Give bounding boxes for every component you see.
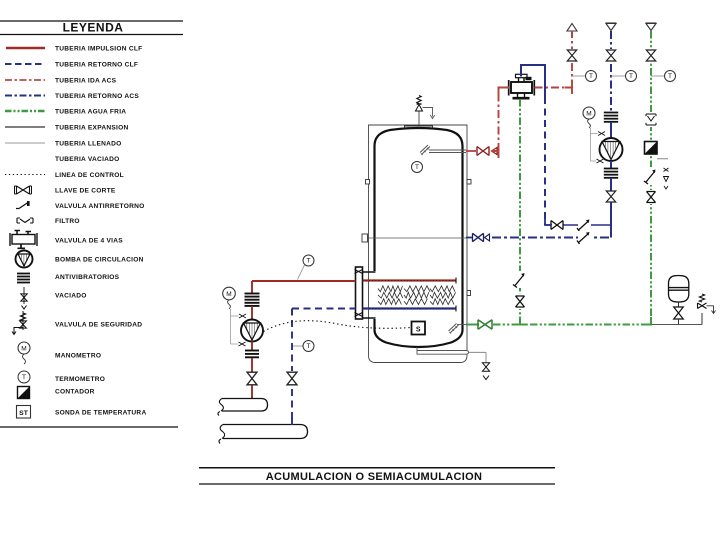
legend symbol termometro xyxy=(18,371,30,383)
flow arrow down (agua fria entrada) xyxy=(646,22,657,24)
heat exchanger flange bolts xyxy=(355,270,363,317)
svg-text:T: T xyxy=(629,73,633,80)
pipe retorno CLF loop over 4-way valve (navy) xyxy=(521,65,545,97)
svg-text:TUBERIA IMPULSION CLF: TUBERIA IMPULSION CLF xyxy=(55,45,142,52)
legend symbol llave de corte xyxy=(17,186,30,194)
svg-text:TUBERIA IDA ACS: TUBERIA IDA ACS xyxy=(55,77,117,84)
pump impulsion CLF xyxy=(241,320,263,342)
legend symbol contador xyxy=(18,387,30,399)
valve on ACS riser xyxy=(566,49,578,62)
boiler manifold lower xyxy=(223,425,308,439)
water counter xyxy=(645,142,658,155)
pipe retorno CLF vertical (navy dashed) xyxy=(291,309,293,426)
svg-text:M: M xyxy=(226,291,231,298)
svg-text:LINEA DE CONTROL: LINEA DE CONTROL xyxy=(55,172,124,179)
thermometer T impulsion xyxy=(298,265,305,280)
tank drain pipe xyxy=(416,347,418,351)
safety valve on expansion line xyxy=(701,313,703,325)
svg-text:TUBERIA RETORNO ACS: TUBERIA RETORNO ACS xyxy=(55,93,139,100)
legend symbol manometro xyxy=(18,342,30,354)
heat exchanger flange plate xyxy=(356,267,363,319)
pipe impulsion CLF vertical (red) xyxy=(251,281,253,293)
svg-text:T: T xyxy=(589,73,593,80)
tank side lugs xyxy=(366,180,370,185)
cut valve tank cold inlet xyxy=(478,320,492,330)
check valve retorno upper xyxy=(578,218,591,231)
tank wall notch for exchanger xyxy=(372,271,378,319)
pipe corner elbows (solid) xyxy=(644,317,651,325)
expansion vessel xyxy=(669,276,689,303)
valve below pump ACS xyxy=(606,191,615,202)
svg-text:ST: ST xyxy=(19,410,29,417)
cut valve retorno upper xyxy=(551,220,563,230)
svg-text:T: T xyxy=(668,73,672,80)
pipe agua fria to tank bottom (green) xyxy=(493,324,651,326)
boiler manifold upper xyxy=(222,399,268,412)
counter test tap xyxy=(657,158,668,160)
legend line tuberia ida ACS xyxy=(5,79,45,81)
svg-text:VALVULA ANTIRRETORNO: VALVULA ANTIRRETORNO xyxy=(55,203,145,210)
valve on retorno CLF xyxy=(286,371,298,386)
pipe retorno ACS riser (navy dash-dot) xyxy=(610,31,612,112)
svg-text:S: S xyxy=(416,326,421,333)
sonda S box in tank xyxy=(412,322,426,335)
pipe agua fria vertical (green) xyxy=(650,31,652,325)
thermometer T agua fria xyxy=(651,75,665,77)
heat exchanger hot tube (red) xyxy=(363,279,457,281)
pipe ida ACS riser to 4-way valve (red dash-dot) xyxy=(499,88,510,152)
svg-text:CONTADOR: CONTADOR xyxy=(55,388,95,395)
pipe ida ACS 4-way valve to riser (red dash-dot) xyxy=(535,87,573,89)
4-way valve body xyxy=(511,82,532,93)
filter on agua fria xyxy=(644,112,658,127)
tank outer insulation jacket xyxy=(369,125,468,363)
check valve on agua fria drop xyxy=(514,271,526,288)
cut valve agua fria xyxy=(645,190,657,204)
legend symbol bomba de circulacion xyxy=(16,251,33,268)
pump retorno ACS xyxy=(600,138,623,161)
heat exchanger coil xyxy=(378,286,403,292)
4-way valve top port xyxy=(519,78,525,83)
tank vessel xyxy=(375,128,463,347)
svg-text:ANTIVIBRATORIOS: ANTIVIBRATORIOS xyxy=(55,274,120,281)
svg-text:ACUMULACION O SEMIACUMULACION: ACUMULACION O SEMIACUMULACION xyxy=(266,471,482,483)
svg-text:LEYENDA: LEYENDA xyxy=(63,21,124,35)
antivibrator upper pump ACS xyxy=(604,112,618,114)
svg-text:VALVULA DE SEGURIDAD: VALVULA DE SEGURIDAD xyxy=(55,321,142,328)
legend line tuberia llenado xyxy=(5,142,45,144)
valve on agua fria entry xyxy=(645,49,657,62)
svg-text:MANOMETRO: MANOMETRO xyxy=(55,352,101,359)
legend bottom border xyxy=(0,426,178,428)
svg-text:SONDA DE TEMPERATURA: SONDA DE TEMPERATURA xyxy=(55,409,146,416)
svg-text:LLAVE DE CORTE: LLAVE DE CORTE xyxy=(55,187,116,194)
pipe impulsion CLF horizontal (red) xyxy=(252,280,356,282)
svg-text:M: M xyxy=(21,346,26,353)
svg-text:TUBERIA AGUA FRIA: TUBERIA AGUA FRIA xyxy=(55,108,126,115)
legend symbol antivibratorios xyxy=(17,273,30,275)
valve on retorno ACS riser xyxy=(605,49,617,62)
legend symbol valvula de seguridad xyxy=(22,311,24,330)
tank drain valve xyxy=(482,363,489,371)
svg-text:T: T xyxy=(307,343,311,350)
valve on tank middle connection xyxy=(466,237,472,239)
svg-text:M: M xyxy=(586,111,591,118)
control dotted line sonda to pump xyxy=(264,321,412,332)
pipe retorno CLF horizontal (navy dashed) xyxy=(292,308,356,310)
thermometer T retorno ACS xyxy=(611,75,626,77)
4-way valve bottom port xyxy=(518,93,525,97)
title block xyxy=(199,467,555,469)
thermometer T retorno xyxy=(292,345,303,347)
tank dip tube at middle connection xyxy=(366,237,466,239)
thermometer T riser ACS xyxy=(572,75,586,77)
pipe retorno CLF horizontal upper (navy) xyxy=(545,224,611,226)
flow arrow up (salida ACS) xyxy=(567,24,577,32)
pipe expansion (gray) xyxy=(651,324,702,326)
svg-text:TUBERIA EXPANSION: TUBERIA EXPANSION xyxy=(55,124,129,131)
svg-text:TERMOMETRO: TERMOMETRO xyxy=(55,376,105,383)
legend line tuberia impulsion CLF xyxy=(6,47,45,50)
tank safety valve assembly xyxy=(418,111,420,125)
tank top nozzle (ACS outlet) xyxy=(420,145,430,155)
heat exchanger mounting box xyxy=(363,272,376,318)
svg-text:T: T xyxy=(22,374,26,381)
svg-text:TUBERIA RETORNO CLF: TUBERIA RETORNO CLF xyxy=(55,61,138,68)
manometer pump ACS xyxy=(583,107,595,119)
check valve agua fria xyxy=(644,167,658,185)
tank thermometer T xyxy=(412,162,423,173)
legend symbol vaciado xyxy=(23,287,25,304)
legend line tuberia retorno ACS xyxy=(5,95,45,97)
svg-text:VACIADO: VACIADO xyxy=(55,292,87,299)
flow arrow down (retorno ACS) xyxy=(606,22,617,24)
antivibrator lower pump ACS xyxy=(610,161,612,168)
antivibrator upper pump CLF xyxy=(245,293,260,295)
heat exchanger cold tube (blue) xyxy=(363,307,457,309)
tank bottom nozzle (cold water inlet) xyxy=(449,324,459,334)
svg-text:TUBERIA VACIADO: TUBERIA VACIADO xyxy=(55,156,120,163)
pipe retorno ACS horizontal lower (navy dash-dot) xyxy=(492,237,611,239)
check valve retorno lower xyxy=(578,231,591,244)
legend symbol valvula de 4 vias xyxy=(12,235,35,245)
legend line tuberia expansion xyxy=(5,126,45,128)
svg-text:FILTRO: FILTRO xyxy=(55,218,80,225)
valve below pump CLF xyxy=(247,372,257,385)
pipe ida ACS tank to corner (red) xyxy=(466,150,476,152)
expansion vessel valve xyxy=(678,302,680,307)
legend symbol valvula antirretorno xyxy=(16,203,28,209)
4-way valve actuator knob xyxy=(526,77,532,80)
svg-text:T: T xyxy=(307,258,311,265)
antivibrator lower pump CLF xyxy=(251,342,253,351)
check+cut valve on tank hot outlet xyxy=(477,147,489,156)
legend symbol filtro xyxy=(17,218,33,223)
cut valve on agua fria drop xyxy=(514,294,526,309)
legend line tuberia retorno CLF xyxy=(5,63,45,65)
legend title bar LEYENDA xyxy=(0,20,183,22)
legend line tuberia agua fria xyxy=(5,110,45,112)
manometer pump CLF xyxy=(223,287,236,300)
svg-text:TUBERIA LLENADO: TUBERIA LLENADO xyxy=(55,140,122,147)
svg-text:BOMBA DE CIRCULACION: BOMBA DE CIRCULACION xyxy=(55,256,144,263)
legend symbol sonda de temperatura ST xyxy=(17,406,31,419)
svg-text:VALVULA DE 4 VIAS: VALVULA DE 4 VIAS xyxy=(55,237,123,244)
svg-text:T: T xyxy=(415,164,419,171)
pipe agua fria drop from 4-way valve (green) xyxy=(519,99,521,325)
legend line linea de control xyxy=(5,174,45,176)
